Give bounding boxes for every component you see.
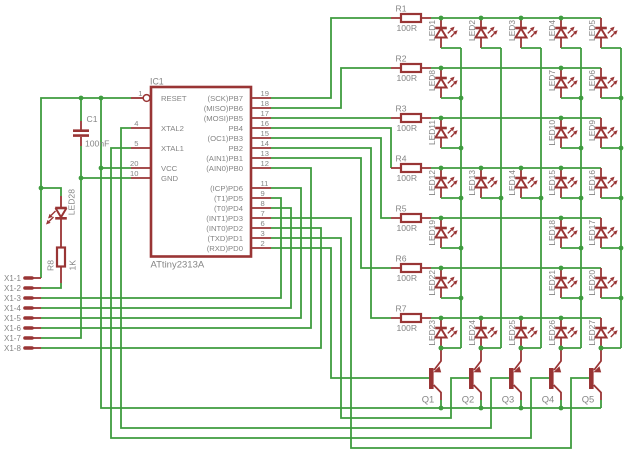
svg-text:IC1: IC1 [150,77,164,87]
led LED11 [427,116,464,151]
led LED8 [427,66,464,101]
svg-text:3: 3 [261,229,265,238]
wire row 6 cathode bus [431,267,601,269]
connector pin X1-5 [4,314,41,323]
svg-text:(RXD)PD0: (RXD)PD0 [207,244,243,253]
wire XTAL2 pin4 to Q3 base [121,128,510,428]
svg-text:LED10: LED10 [547,120,557,146]
wire row 1 cathode bus [431,17,601,19]
resistor R5 100R [391,204,431,234]
led LED13 [467,166,504,201]
svg-text:16: 16 [261,119,269,128]
junction VCC riser [99,166,104,171]
svg-text:LED18: LED18 [547,220,557,246]
resistor R4 100R [391,154,431,184]
connector pin X1-2 [4,284,41,293]
led LED5 [587,18,621,48]
led LED26 [547,316,581,351]
connector pin X1-6 [4,324,41,333]
IC1 pin 1 RESET [131,89,187,103]
svg-text:14: 14 [261,139,269,148]
svg-text:R1: R1 [396,4,407,14]
IC1 pin 11 (ICP)PD6 [210,179,271,193]
svg-text:LED2: LED2 [467,20,477,41]
svg-text:C1: C1 [87,114,98,124]
connector pin X1-4 [4,304,41,313]
svg-text:18: 18 [261,99,269,108]
led LED25 [507,316,541,351]
IC1 pin 6 (INT0)PD2 [206,219,271,233]
led LED14 [507,166,544,201]
wire X1-2 to R8 [41,283,61,288]
svg-text:LED28: LED28 [67,189,77,215]
svg-text:R7: R7 [396,304,407,314]
svg-text:4: 4 [134,119,138,128]
led LED6 [587,68,624,100]
wire PB5 pin17 to R3 [271,117,391,119]
wire PD0 pin2 to Q1 base [271,248,430,378]
svg-text:100R: 100R [397,173,418,183]
svg-text:(T0)PD4: (T0)PD4 [214,204,244,213]
svg-text:X1-6: X1-6 [4,324,21,333]
led LED21 [547,266,584,301]
capacitor C1 [73,114,109,149]
IC1 pin 17 (MOSI)PB5 [204,109,271,123]
svg-text:XTAL2: XTAL2 [161,124,184,133]
svg-text:(AIN0)PB0: (AIN0)PB0 [206,164,243,173]
wire X1-8 to IC pin 6 (PD2) [41,228,321,348]
svg-text:R2: R2 [396,54,407,64]
svg-text:Q3: Q3 [502,394,515,405]
svg-text:Q5: Q5 [582,394,595,405]
svg-text:15: 15 [261,129,269,138]
svg-text:100R: 100R [397,223,418,233]
svg-text:17: 17 [261,109,269,118]
wire PB7 pin19 to R1 [271,18,391,98]
svg-text:LED7: LED7 [547,70,557,91]
wire X1-3 to IC pin 9 (PD5) [41,198,281,298]
wire PB4 pin16 to R4 [271,128,391,168]
svg-text:Q1: Q1 [422,394,435,405]
junction X1-1/LED28 branch [39,186,44,191]
svg-text:R5: R5 [396,204,407,214]
led LED4 [547,16,581,48]
svg-text:LED8: LED8 [427,70,437,91]
wire XTAL1 pin5 to Q4 base [111,148,550,438]
resistor R2 100R [391,54,431,84]
wire column 2 anode bus [500,48,502,348]
svg-text:(INT1)PD3: (INT1)PD3 [206,214,243,223]
svg-text:20: 20 [130,159,138,168]
IC IC1 ATtiny2313A [150,77,251,271]
transistor Q1 [422,348,442,408]
wire row 5 cathode bus [431,217,601,219]
IC1 pin 20 VCC [130,159,178,173]
IC1 pin 9 (T1)PD5 [214,189,271,203]
svg-text:LED22: LED22 [427,270,437,296]
svg-text:X1-8: X1-8 [4,344,21,353]
svg-text:R8: R8 [46,260,56,271]
wire GND pin10 [81,177,131,179]
led LED24 [467,316,501,351]
svg-text:(OC1)PB3: (OC1)PB3 [208,134,243,143]
resistor R1 100R [391,4,431,34]
led LED1 [427,16,461,48]
wire row 3 cathode bus [431,117,601,119]
junction GND net / pin10 [79,176,84,181]
wire PB6 pin18 to R2 [271,68,391,108]
wire column 3 anode bus [540,48,542,348]
resistor R7 100R [391,304,431,334]
svg-text:LED1: LED1 [427,20,437,41]
svg-text:11: 11 [261,179,269,188]
svg-text:Q2: Q2 [462,394,475,405]
IC1 pin 19 (SCK)PB7 [208,89,271,103]
IC1 pin 7 (INT1)PD3 [206,209,271,223]
svg-text:LED20: LED20 [587,270,597,296]
wire X1-6 to IC pin 12 (PB0) [41,168,311,328]
svg-text:5: 5 [134,139,138,148]
IC1 pin 18 (MISO)PB6 [204,99,271,113]
transistor Q4 [542,348,562,408]
led LED12 [427,166,464,201]
IC1 pin 16 PB4 [228,119,271,133]
transistor Q2 [462,348,482,408]
svg-text:100R: 100R [397,73,418,83]
svg-text:LED17: LED17 [587,220,597,246]
svg-text:LED9: LED9 [587,120,597,141]
svg-text:PB4: PB4 [228,124,243,133]
svg-text:LED19: LED19 [427,220,437,246]
IC1 pin 12 (AIN0)PB0 [206,159,271,173]
IC1 pin 3 (TXD)PD1 [208,229,271,243]
svg-text:10: 10 [130,169,138,178]
junction Q1 emitter [439,406,444,411]
svg-text:(MOSI)PB5: (MOSI)PB5 [204,114,243,123]
led LED19 [427,216,464,251]
IC1 pin 4 XTAL2 [131,119,184,133]
svg-text:(MISO)PB6: (MISO)PB6 [204,104,243,113]
led LED2 [467,16,501,48]
svg-text:19: 19 [261,89,269,98]
svg-text:100R: 100R [397,23,418,33]
svg-text:(T1)PD5: (T1)PD5 [214,194,243,203]
svg-text:X1-5: X1-5 [4,314,21,323]
svg-text:9: 9 [261,189,265,198]
svg-text:VCC: VCC [161,164,178,173]
svg-text:LED12: LED12 [427,170,437,196]
svg-text:100R: 100R [397,323,418,333]
svg-text:X1-1: X1-1 [4,274,21,283]
svg-text:2: 2 [261,239,265,248]
wire PB3 pin15 to R5 [271,138,391,218]
svg-text:6: 6 [261,219,265,228]
wire column 5 anode bus [620,48,622,348]
svg-text:LED24: LED24 [467,320,477,346]
IC1 pin 2 (RXD)PD0 [207,239,271,253]
svg-text:R3: R3 [396,104,407,114]
svg-text:LED11: LED11 [427,120,437,145]
resistor R6 100R [391,254,431,284]
led LED28 [46,189,77,247]
svg-text:R4: R4 [396,154,407,164]
svg-text:XTAL1: XTAL1 [161,144,184,153]
led LED9 [587,118,624,150]
connector pin X1-1 [4,274,41,283]
svg-text:ATtiny2313A: ATtiny2313A [151,260,205,271]
transistor Q3 [502,348,522,408]
svg-text:1K: 1K [68,260,78,271]
resistor R8 [46,247,78,283]
svg-text:LED27: LED27 [587,320,597,346]
led LED10 [547,116,584,151]
svg-text:LED13: LED13 [467,170,477,196]
svg-text:(AIN1)PB1: (AIN1)PB1 [206,154,243,163]
junction Q1 collector [439,346,444,351]
connector pin X1-7 [4,334,41,343]
wire VCC pin20 to riser [101,167,131,169]
wire row 4 cathode bus [431,167,601,169]
led LED17 [587,218,624,250]
wire C1 bottom / GND net to X1-7 [41,146,81,338]
svg-text:(SCK)PB7: (SCK)PB7 [208,94,243,103]
wire X1-4 to IC pin 8 (PD4) [41,208,291,308]
wire VCC riser to emitter rail [101,98,601,408]
junction rail/VCC riser [99,96,104,101]
svg-text:(TXD)PD1: (TXD)PD1 [208,234,243,243]
svg-text:LED14: LED14 [507,170,517,196]
led LED27 [587,318,621,350]
IC1 pin 5 XTAL1 [131,139,184,153]
wire C1 top [80,98,82,121]
connector pin X1-8 [4,344,41,353]
junction Q5 collector [599,346,604,351]
led LED15 [547,166,584,201]
IC1 pin 8 (T0)PD4 [214,199,271,213]
led LED22 [427,266,464,301]
junction Q2 emitter [479,406,484,411]
wire X1-1 to VCC rail [41,98,131,278]
svg-text:13: 13 [261,149,269,158]
svg-text:X1-7: X1-7 [4,334,21,343]
led LED18 [547,216,584,251]
svg-text:LED21: LED21 [547,270,557,296]
wire PD3 pin7 to Q5 base [271,218,590,448]
junction Q3 collector [519,346,524,351]
IC1 pin 14 PB2 [228,139,271,153]
svg-text:LED15: LED15 [547,170,557,196]
led LED7 [547,66,584,101]
svg-text:(INT0)PD2: (INT0)PD2 [206,224,243,233]
svg-text:LED25: LED25 [507,320,517,346]
svg-text:LED16: LED16 [587,170,597,196]
svg-text:LED23: LED23 [427,320,437,346]
svg-text:LED26: LED26 [547,320,557,346]
svg-text:PB2: PB2 [228,144,243,153]
wire branch rail to LED28 anode [41,188,61,196]
led LED23 [427,316,461,351]
svg-text:100R: 100R [397,273,418,283]
svg-text:LED6: LED6 [587,70,597,91]
transistor Q5 [582,348,602,408]
svg-text:X1-4: X1-4 [4,304,21,313]
IC1 pin 10 GND [130,169,178,183]
svg-text:100nF: 100nF [85,139,109,149]
resistor R3 100R [391,104,431,134]
IC1 pin 13 (AIN1)PB1 [206,149,271,163]
svg-text:LED4: LED4 [547,20,557,41]
wire row 7 cathode bus [431,317,601,319]
wire column 4 anode bus [580,48,582,348]
wire column 1 anode bus [460,48,462,348]
svg-text:X1-3: X1-3 [4,294,21,303]
wire PD1 pin3 to Q2 base [271,238,470,418]
svg-text:8: 8 [261,199,265,208]
led LED3 [507,16,541,48]
svg-text:7: 7 [261,209,265,218]
junction rail/C1 [79,96,84,101]
junction Q3 emitter [519,406,524,411]
svg-text:LED5: LED5 [587,20,597,41]
junction Q4 emitter [559,406,564,411]
svg-text:X1-2: X1-2 [4,284,21,293]
wire PB1 pin13 to R6 [271,158,391,268]
svg-text:R6: R6 [396,254,407,264]
wire row 2 cathode bus [431,67,601,69]
junction Q2 collector [479,346,484,351]
connector pin X1-3 [4,294,41,303]
IC1 pin 15 (OC1)PB3 [208,129,271,143]
svg-text:12: 12 [261,159,269,168]
svg-text:100R: 100R [397,123,418,133]
wire PB2 pin14 to R7 [271,148,391,318]
led LED16 [587,168,624,200]
svg-text:(ICP)PD6: (ICP)PD6 [210,184,243,193]
svg-text:1: 1 [138,89,142,98]
svg-text:Q4: Q4 [542,394,555,405]
junction Q4 collector [559,346,564,351]
svg-text:LED3: LED3 [507,20,517,41]
wire X1-5 to IC pin 11 (PD6) [41,188,301,318]
svg-text:RESET: RESET [161,94,187,103]
led LED20 [587,268,624,300]
svg-text:GND: GND [161,174,179,183]
